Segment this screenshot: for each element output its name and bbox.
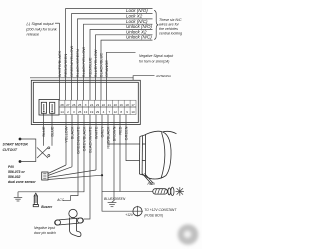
- door pin switch: [54, 209, 83, 236]
- label door pin switch: [34, 226, 56, 235]
- svg-text:TO +12V CONSTANT: TO +12V CONSTANT: [144, 208, 177, 212]
- connector pin grid: [59, 100, 136, 114]
- svg-text:These six N/C: These six N/C: [159, 18, 182, 22]
- relay K1: [41, 102, 46, 113]
- svg-text:Unlock (N/O): Unlock (N/O): [126, 24, 153, 29]
- wire YELLOW to sensor: [65, 115, 67, 166]
- fuse supply wire: [18, 191, 84, 193]
- svg-text:ACC: ACC: [56, 198, 64, 202]
- relay K2: [50, 102, 55, 113]
- fuse holder: [153, 187, 174, 195]
- note central locking: [159, 18, 182, 36]
- svg-text:GREEN: GREEN: [123, 126, 128, 140]
- label START MOTOR CUTOUT: [3, 143, 29, 153]
- svg-text:BLACK/GREEN: BLACK/GREEN: [75, 49, 80, 77]
- svg-text:Lock (N/C): Lock (N/C): [126, 19, 148, 24]
- svg-text:(-) Signal output: (-) Signal output: [27, 22, 55, 26]
- svg-text:BLACK/BLUE: BLACK/BLUE: [98, 53, 103, 77]
- buzzer: [33, 193, 38, 207]
- svg-text:X: X: [85, 103, 87, 107]
- svg-text:wires are for: wires are for: [159, 22, 180, 26]
- wire WHITE to sensor: [95, 115, 97, 171]
- siren: [139, 131, 176, 184]
- node 2: [19, 160, 22, 163]
- label fuse box: [144, 208, 177, 217]
- relay sub-box: [39, 100, 59, 116]
- svg-text:25: 25: [78, 103, 82, 107]
- wire riser WHITE/BLACK to trunk label: [59, 23, 61, 100]
- wire BLACK/WHITE to door switch: [84, 115, 90, 220]
- svg-text:(200 mA) for trunk: (200 mA) for trunk: [26, 27, 58, 31]
- svg-text:RED/GREEN: RED/GREEN: [63, 54, 68, 77]
- svg-text:GREY/BLACK: GREY/BLACK: [81, 126, 86, 151]
- main unit box: [31, 80, 140, 124]
- svg-text:RED/BLUE: RED/BLUE: [87, 57, 92, 77]
- svg-text:13: 13: [84, 110, 88, 114]
- svg-text:BLUE: BLUE: [41, 126, 46, 137]
- svg-text:START MOTOR: START MOTOR: [3, 143, 29, 147]
- svg-text:Lock X2: Lock X2: [126, 14, 143, 19]
- svg-text:RED: RED: [117, 126, 122, 134]
- wire RED/BLACK to siren: [108, 115, 140, 145]
- wire riser BLACK/BLUE: [101, 40, 153, 100]
- svg-text:14: 14: [60, 110, 64, 114]
- wire GREY/BLACK to ground wire: [83, 115, 85, 192]
- starburst: [176, 187, 185, 196]
- 12V supply line: [102, 210, 132, 212]
- wire riser BLACK/YELLOW to Unlock (N/O): [84, 24, 153, 100]
- svg-text:GREEN/WHITE: GREEN/WHITE: [75, 126, 80, 154]
- svg-text:29: 29: [96, 110, 100, 114]
- svg-text:19: 19: [120, 103, 124, 107]
- antenna feed wire: [30, 77, 134, 79]
- svg-text:RED/BLACK: RED/BLACK: [105, 126, 110, 148]
- 12V circle: [132, 206, 143, 217]
- svg-text:P/N: P/N: [8, 165, 14, 169]
- wire GREEN to siren: [126, 115, 140, 161]
- svg-text:25: 25: [78, 110, 82, 114]
- watermark: [178, 224, 199, 245]
- svg-text:19: 19: [90, 110, 94, 114]
- wire riser BLACK/GREEN to Lock (N/C): [78, 19, 153, 100]
- svg-text:YELLOW: YELLOW: [63, 126, 68, 143]
- pin numbers bottom row: [60, 110, 135, 114]
- svg-text:ANTENNA: ANTENNA: [155, 74, 171, 78]
- sensor wires: [48, 165, 102, 180]
- svg-text:GREEN/YELLOW: GREEN/YELLOW: [69, 46, 74, 77]
- svg-text:BLACK/WHITE: BLACK/WHITE: [87, 126, 92, 153]
- svg-text:Unlock X2: Unlock X2: [126, 29, 147, 34]
- svg-text:BLUE/YELLOW: BLUE/YELLOW: [93, 49, 98, 77]
- svg-text:24: 24: [90, 103, 94, 107]
- dual zone sensor plug: [42, 172, 48, 180]
- svg-text:556-073 or: 556-073 or: [8, 170, 25, 174]
- ground symbol: [14, 192, 22, 201]
- svg-text:central locking: central locking: [159, 32, 182, 36]
- svg-text:dual zone sensor: dual zone sensor: [8, 180, 36, 184]
- brace: [154, 11, 158, 40]
- wire RED to fuse wire: [119, 115, 121, 192]
- svg-text:GREY: GREY: [99, 126, 104, 137]
- svg-text:27: 27: [66, 103, 70, 107]
- svg-text:CUTOUT: CUTOUT: [3, 148, 18, 152]
- antenna lead: [133, 76, 154, 81]
- svg-text:BLUE: BLUE: [49, 126, 54, 137]
- svg-text:Lock (N/O): Lock (N/O): [126, 8, 148, 13]
- wire riser ORANGE to horn label: [107, 52, 136, 100]
- svg-text:BLACK/YELLOW: BLACK/YELLOW: [81, 47, 86, 77]
- svg-text:23: 23: [96, 103, 100, 107]
- svg-text:the vehicles: the vehicles: [159, 27, 178, 31]
- wire riser RED/BLUE to Unlock X2: [90, 30, 153, 101]
- svg-text:Negative Signal output: Negative Signal output: [139, 54, 174, 58]
- svg-text:Buzzer: Buzzer: [41, 205, 53, 209]
- svg-text:26: 26: [72, 103, 76, 107]
- svg-text:12: 12: [114, 110, 118, 114]
- svg-text:+12V: +12V: [125, 213, 134, 217]
- svg-text:22: 22: [102, 103, 106, 107]
- relay wire BLUE 1: [43, 114, 45, 146]
- svg-text:BROWN: BROWN: [111, 126, 116, 141]
- switch blades: [37, 147, 50, 158]
- label horn/siren output: [139, 54, 174, 63]
- svg-text:Negative input: Negative input: [34, 226, 56, 230]
- svg-text:for horn or siren(1A): for horn or siren(1A): [139, 59, 169, 63]
- wire GREY down to 12V line: [101, 115, 103, 212]
- svg-text:WHITE: WHITE: [93, 126, 98, 139]
- wire BLACK to sensor: [71, 115, 73, 167]
- wire riser BLUE/YELLOW to Unlock (N/C): [96, 35, 153, 100]
- wire riser GREEN/YELLOW to Lock X2: [72, 14, 153, 101]
- svg-text:17: 17: [131, 103, 135, 107]
- relay wire BLUE 2: [51, 114, 53, 146]
- svg-text:28: 28: [60, 103, 64, 107]
- label dual zone sensor: [8, 165, 36, 184]
- svg-text:21: 21: [108, 103, 112, 107]
- svg-text:WHITE/BLACK: WHITE/BLACK: [57, 50, 62, 77]
- start motor cutout node: [19, 138, 22, 141]
- wire GREEN/WHITE to ACC: [63, 115, 78, 201]
- svg-text:BLACK: BLACK: [69, 126, 74, 139]
- svg-text:ORANGE: ORANGE: [104, 60, 109, 77]
- svg-text:Unlock (N/C): Unlock (N/C): [126, 35, 152, 40]
- svg-text:BLUE/GREEN: BLUE/GREEN: [104, 197, 126, 201]
- node sensor junction: [101, 174, 103, 176]
- svg-text:(FUSE BOX): (FUSE BOX): [144, 213, 163, 217]
- label trunk release: [26, 22, 58, 36]
- wire from node: [20, 139, 36, 162]
- svg-text:18: 18: [125, 103, 129, 107]
- pin numbers top row: [60, 103, 135, 107]
- svg-text:10: 10: [131, 110, 135, 114]
- svg-text:556-032: 556-032: [8, 175, 21, 179]
- wire BROWN to ground 2: [113, 115, 115, 202]
- svg-text:door pin switch: door pin switch: [34, 231, 56, 235]
- wire riser RED/GREEN to Lock (N/O): [66, 9, 153, 101]
- svg-text:release: release: [27, 32, 39, 36]
- fuse feed from GREY wire: [102, 190, 153, 192]
- svg-text:20: 20: [114, 103, 118, 107]
